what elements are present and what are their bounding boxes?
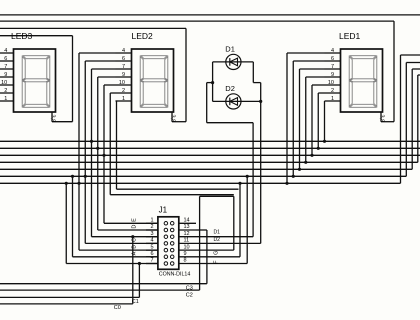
svg-text:7: 7: [122, 64, 125, 70]
svg-text:G: G: [214, 251, 220, 255]
svg-text:5: 5: [150, 244, 153, 250]
svg-text:8: 8: [184, 258, 187, 264]
svg-text:1: 1: [4, 96, 7, 102]
svg-text:CONN-DIL14: CONN-DIL14: [159, 272, 191, 278]
svg-text:D1: D1: [225, 45, 235, 54]
svg-text:LED2: LED2: [132, 31, 154, 41]
svg-text:C2: C2: [186, 293, 193, 299]
svg-text:J1: J1: [159, 206, 168, 215]
svg-text:1: 1: [122, 96, 125, 102]
svg-text:4: 4: [150, 238, 153, 244]
svg-text:2: 2: [331, 88, 334, 94]
svg-text:3,8: 3,8: [169, 115, 175, 123]
svg-text:2: 2: [150, 224, 153, 230]
svg-text:6: 6: [122, 56, 125, 62]
svg-text:D: D: [131, 225, 137, 229]
svg-text:9: 9: [331, 72, 334, 78]
svg-text:10: 10: [328, 80, 334, 86]
svg-text:D1: D1: [214, 230, 221, 236]
svg-text:9: 9: [122, 72, 125, 78]
svg-text:3: 3: [150, 231, 153, 237]
svg-text:10: 10: [1, 80, 7, 86]
svg-text:10: 10: [119, 80, 125, 86]
svg-text:12: 12: [184, 231, 190, 237]
svg-text:13: 13: [184, 224, 190, 230]
svg-text:7: 7: [150, 258, 153, 264]
svg-text:9: 9: [184, 251, 187, 257]
svg-text:C1: C1: [132, 299, 139, 305]
svg-text:C0: C0: [114, 305, 121, 311]
svg-text:11: 11: [184, 238, 190, 244]
svg-text:10: 10: [184, 244, 190, 250]
svg-text:6: 6: [150, 251, 153, 257]
svg-text:9: 9: [4, 72, 7, 78]
svg-text:6: 6: [331, 56, 334, 62]
svg-text:4: 4: [4, 48, 7, 54]
svg-text:4: 4: [331, 48, 334, 54]
svg-text:3,8: 3,8: [378, 115, 384, 123]
svg-text:2: 2: [122, 88, 125, 94]
svg-text:D2: D2: [225, 84, 235, 93]
svg-text:7: 7: [331, 64, 334, 70]
svg-text:2: 2: [4, 88, 7, 94]
svg-text:6: 6: [4, 56, 7, 62]
svg-text:14: 14: [184, 218, 190, 224]
svg-text:7: 7: [4, 64, 7, 70]
svg-text:D2: D2: [214, 237, 221, 243]
svg-text:LED1: LED1: [339, 31, 361, 41]
svg-text:E: E: [131, 218, 137, 222]
svg-text:1: 1: [150, 218, 153, 224]
svg-text:1: 1: [331, 96, 334, 102]
svg-text:3,8: 3,8: [49, 115, 55, 123]
svg-text:C3: C3: [186, 286, 193, 292]
svg-text:4: 4: [122, 48, 125, 54]
svg-text:LED3: LED3: [11, 31, 33, 41]
